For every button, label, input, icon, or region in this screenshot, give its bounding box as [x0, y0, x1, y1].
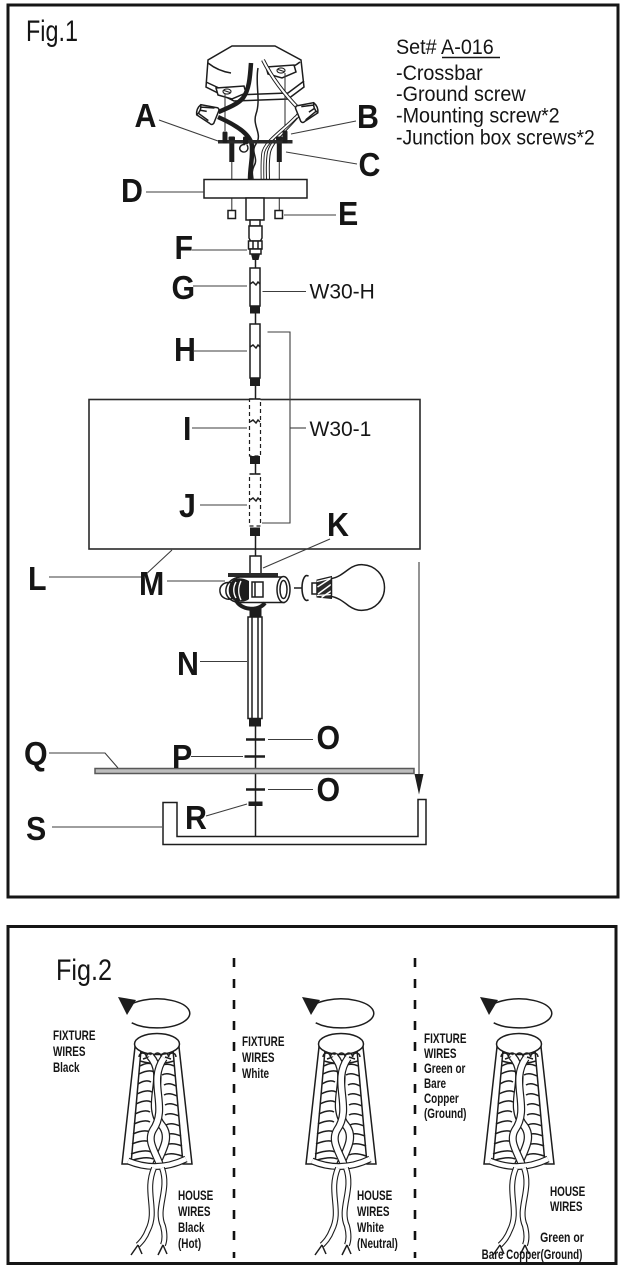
tube N outer — [248, 617, 262, 719]
fig2 divider dash 2 — [414, 958, 417, 1258]
tube G bottom collar — [250, 306, 260, 314]
connecting rod H-I — [255, 386, 257, 399]
washer O2 — [246, 788, 265, 791]
black wire from wire nut to canopy — [218, 117, 252, 180]
part F adapter body — [249, 226, 262, 241]
svg-text:WIRES: WIRES — [53, 1043, 86, 1059]
svg-text:FIXTURE: FIXTURE — [424, 1030, 466, 1046]
second white wire to canopy — [262, 117, 296, 181]
leader R — [206, 804, 247, 816]
right mounting screw head — [276, 137, 283, 141]
threaded rod below N — [255, 727, 257, 842]
house wires label 2 — [357, 1187, 398, 1251]
connecting rod J-K — [255, 536, 257, 556]
socket interior switch block — [252, 582, 263, 597]
socket opening inner ellipse — [280, 581, 287, 599]
socket lower collar — [250, 609, 262, 618]
svg-text:W30-1: W30-1 — [310, 418, 372, 441]
wire under socket — [236, 600, 265, 609]
svg-text:Copper: Copper — [424, 1090, 459, 1106]
label Q — [24, 735, 48, 772]
label F — [175, 229, 194, 266]
ground wire note — [540, 1230, 584, 1246]
right box screw nut on crossbar — [283, 131, 288, 144]
leader N — [200, 661, 247, 663]
tube I break mark — [250, 420, 260, 423]
svg-text:P: P — [172, 738, 192, 775]
svg-text:FIXTURE: FIXTURE — [242, 1033, 284, 1049]
leader G — [193, 285, 247, 287]
svg-text:WIRES: WIRES — [424, 1045, 457, 1061]
svg-text:I: I — [183, 410, 191, 447]
svg-text:H: H — [174, 331, 196, 368]
parts list: set number — [396, 35, 494, 59]
junction box outer octagon — [206, 46, 304, 101]
fixture wires label 1 — [53, 1027, 95, 1075]
svg-text:Bare Copper(Ground): Bare Copper(Ground) — [482, 1246, 583, 1262]
socket body M — [226, 577, 284, 603]
crossbar — [218, 140, 293, 144]
left box screw nut on crossbar — [223, 132, 228, 144]
svg-text:(Neutral): (Neutral) — [357, 1235, 398, 1251]
leader J — [200, 504, 247, 506]
svg-text:W30-H: W30-H — [310, 281, 375, 304]
svg-text:M: M — [139, 565, 164, 602]
leader I — [192, 427, 247, 429]
svg-text:WIRES: WIRES — [242, 1049, 275, 1065]
tube I (dashed) — [250, 399, 261, 456]
wire nut assembly 2 — [302, 997, 376, 1255]
label P — [172, 738, 192, 775]
left tab screw head — [223, 89, 231, 94]
fig1 title — [26, 14, 78, 47]
socket interior dark left — [229, 578, 249, 601]
label O2 — [317, 771, 341, 808]
nipple K — [250, 556, 261, 576]
svg-text:Fig.1: Fig.1 — [26, 14, 78, 47]
right mounting screw rod — [278, 162, 280, 210]
part F collar — [249, 241, 263, 249]
junction box rim inner line — [206, 81, 304, 95]
connecting rod F-G — [255, 260, 257, 268]
canopy stem neck — [250, 220, 260, 226]
W30-1 tick — [290, 427, 306, 429]
left mounting screw head — [229, 137, 236, 141]
bulb glass — [332, 565, 385, 611]
label D — [121, 172, 143, 209]
svg-text:N: N — [177, 645, 199, 682]
ground screw — [243, 137, 248, 145]
svg-text:J: J — [179, 487, 196, 524]
label B — [357, 98, 379, 135]
house wires label 1 — [178, 1187, 213, 1251]
junction box left mounting tab — [216, 86, 246, 99]
canopy stem block — [246, 198, 264, 220]
bare ground wire squiggle — [252, 68, 258, 180]
svg-text:White: White — [357, 1219, 384, 1235]
svg-text:(Hot): (Hot) — [178, 1235, 201, 1251]
leader L — [49, 550, 172, 577]
label A — [135, 97, 157, 134]
label J — [179, 487, 196, 524]
svg-text:White: White — [242, 1065, 269, 1081]
leader O1 — [268, 739, 313, 741]
glass shade Q (edge view) — [95, 769, 414, 774]
fixture wires label 3 — [424, 1030, 466, 1121]
leader E — [284, 214, 336, 216]
washer O1 — [246, 738, 265, 741]
socket interior white arcs — [234, 581, 241, 600]
label H — [174, 331, 196, 368]
leader Q — [49, 753, 118, 768]
svg-text:Black: Black — [53, 1059, 80, 1075]
right tab screw head — [277, 68, 285, 73]
svg-text:-Ground screw: -Ground screw — [396, 82, 526, 106]
tube J (dashed) — [250, 474, 261, 526]
lock ring tab — [294, 587, 302, 589]
parts list line 2 — [396, 82, 526, 106]
parts list line 3 — [396, 104, 560, 128]
svg-text:L: L — [28, 560, 47, 597]
left mounting screw body — [229, 144, 234, 163]
underline of set number — [442, 57, 500, 59]
leader A — [159, 120, 218, 141]
left junction box screw line — [224, 94, 226, 131]
svg-text:FIXTURE: FIXTURE — [53, 1027, 95, 1043]
svg-text:HOUSE: HOUSE — [357, 1187, 392, 1203]
svg-text:-Junction box screws*2: -Junction box screws*2 — [396, 126, 595, 150]
bulb base nub — [312, 583, 317, 594]
wire nut assembly 1 — [118, 997, 192, 1255]
svg-text:HOUSE: HOUSE — [550, 1183, 585, 1199]
right finial square E — [275, 211, 283, 219]
socket opening ellipse — [277, 577, 290, 603]
part F skirt — [250, 249, 261, 254]
tube N bottom collar — [249, 719, 261, 727]
fig2 frame — [8, 927, 616, 1264]
svg-text:WIRES: WIRES — [357, 1203, 390, 1219]
label C — [359, 146, 381, 183]
svg-text:Black: Black — [178, 1219, 205, 1235]
svg-text:Green or: Green or — [540, 1230, 584, 1246]
right mounting screw body — [277, 144, 282, 163]
svg-text:D: D — [121, 172, 143, 209]
tube G break mark — [250, 282, 260, 285]
tube J bottom collar — [250, 528, 260, 537]
bulb threaded base — [317, 577, 332, 599]
svg-text:E: E — [338, 195, 358, 232]
left finial square E — [228, 211, 236, 219]
canopy plate D — [204, 180, 307, 199]
tube G — [250, 268, 260, 306]
label K — [327, 506, 349, 543]
svg-text:Fig.2: Fig.2 — [56, 953, 112, 987]
svg-text:A: A — [135, 97, 157, 134]
leader F — [192, 249, 247, 251]
tube I bottom collar — [250, 456, 260, 464]
socket top plate — [228, 573, 278, 577]
house wires label 3 — [550, 1183, 585, 1214]
leader C — [286, 152, 357, 164]
svg-text:G: G — [172, 269, 196, 306]
fig1 frame — [8, 5, 618, 897]
leader O2 — [268, 789, 313, 791]
svg-text:Green or: Green or — [424, 1060, 466, 1076]
white wire from box to right nut outline — [263, 60, 300, 110]
right wire nut — [295, 99, 321, 123]
label N — [177, 645, 199, 682]
leader K — [263, 539, 330, 568]
label M — [139, 565, 164, 602]
parts list line 4 — [396, 126, 595, 150]
label S — [26, 810, 46, 847]
connecting rod I-J — [255, 464, 257, 474]
leader H — [193, 350, 247, 352]
svg-text:B: B — [357, 98, 379, 135]
svg-text:WIRES: WIRES — [550, 1198, 583, 1214]
label L — [28, 560, 47, 597]
carton box L — [89, 400, 420, 550]
fig2 title — [56, 953, 112, 987]
W30-H leader — [263, 291, 307, 293]
leader D — [146, 191, 204, 193]
tube H — [250, 324, 260, 378]
left mounting screw rod — [231, 162, 233, 210]
leader B — [291, 121, 356, 134]
lock ring — [302, 576, 308, 601]
tube H bottom collar — [250, 378, 260, 386]
tube N inner walls — [251, 617, 253, 719]
fixture black wire from box — [219, 63, 252, 112]
bracket W30-1 — [262, 332, 290, 523]
fig2 divider dash 1 — [233, 958, 236, 1258]
svg-text:HOUSE: HOUSE — [178, 1187, 213, 1203]
junction box right mounting tab — [266, 65, 296, 78]
down arrow head — [415, 774, 424, 795]
svg-text:(Ground): (Ground) — [424, 1105, 466, 1121]
bottom channel S — [163, 800, 426, 845]
ground wire loop on screw — [240, 144, 248, 152]
tube H break mark — [250, 345, 260, 348]
left wire nut — [194, 101, 220, 125]
leader P — [191, 756, 243, 758]
parts list line 1 — [396, 61, 483, 85]
svg-text:F: F — [175, 229, 194, 266]
part F black nub — [251, 254, 260, 260]
tube J break mark — [250, 498, 260, 501]
svg-text:Set# A-016: Set# A-016 — [396, 35, 494, 59]
junction box inner opening — [208, 62, 300, 73]
svg-text:O: O — [317, 771, 341, 808]
white wire from right nut to canopy — [268, 114, 299, 181]
connecting rod G-H — [255, 314, 257, 325]
label O1 — [317, 719, 341, 756]
socket hook — [220, 583, 233, 600]
svg-text:Q: Q — [24, 735, 48, 772]
svg-text:O: O — [317, 719, 341, 756]
wire nut assembly 3 — [480, 997, 554, 1255]
label I — [183, 410, 191, 447]
down arrow line — [418, 562, 420, 775]
svg-text:K: K — [327, 506, 349, 543]
right junction box screw line — [284, 73, 286, 130]
svg-text:Bare: Bare — [424, 1075, 446, 1091]
svg-text:WIRES: WIRES — [178, 1203, 211, 1219]
nut R — [249, 802, 263, 807]
svg-text:S: S — [26, 810, 46, 847]
label R — [185, 799, 207, 836]
svg-text:C: C — [359, 146, 381, 183]
label G — [172, 269, 196, 306]
leader S — [52, 826, 162, 828]
svg-text:R: R — [185, 799, 207, 836]
svg-text:-Mounting screw*2: -Mounting screw*2 — [396, 104, 560, 128]
nut P — [245, 755, 266, 758]
label E — [338, 195, 358, 232]
fixture wires label 2 — [242, 1033, 284, 1081]
leader M — [167, 580, 225, 582]
